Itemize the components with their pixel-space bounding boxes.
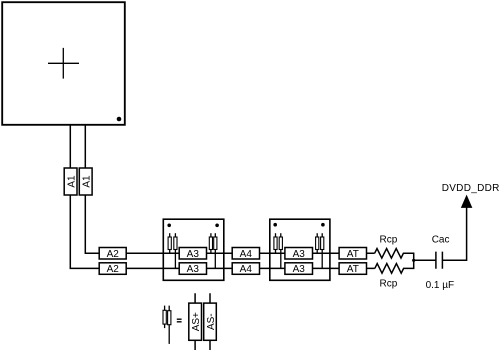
component A3 (block2 row2) (285, 263, 313, 275)
block 1 pin marker dot (right) (215, 224, 219, 228)
svg-text:A1: A1 (82, 175, 93, 188)
block 2 left termination pair (AS+/AS- elements) (274, 233, 283, 268)
svg-text:0.1 µF: 0.1 µF (426, 280, 455, 291)
package pin-1 dot (117, 117, 122, 122)
connector block 2 outline (270, 219, 330, 280)
junction node dot (412, 259, 415, 262)
component A4 (row2) (232, 263, 259, 275)
svg-text:A3: A3 (293, 264, 306, 275)
svg-text:DVDD_DDR: DVDD_DDR (442, 183, 500, 194)
legend symbol: termination pair element AS+ (163, 306, 166, 329)
svg-text:AT: AT (347, 249, 359, 260)
component A4 (row1) (232, 248, 259, 260)
svg-text:A3: A3 (293, 249, 306, 260)
wire: node to capacitor Cac (414, 259, 436, 261)
svg-text:A2: A2 (107, 264, 120, 275)
power arrow DVDD_DDR (462, 196, 472, 208)
component A2 (row2) (99, 263, 126, 275)
wire: net P (row1) from SoC pin P down and right through chain to Rcp (85, 125, 374, 253)
svg-text:A1: A1 (67, 175, 78, 188)
svg-text:A4: A4 (240, 249, 253, 260)
capacitor Cac plates (436, 252, 443, 269)
component A1 (left, on net N) (64, 168, 77, 195)
block 2 right termination pair (AS+/AS- elements) (316, 233, 324, 268)
svg-text:A3: A3 (187, 249, 200, 260)
block 1 pin marker dot (left) (167, 224, 171, 228)
svg-text:A4: A4 (240, 264, 253, 275)
svg-text:AT: AT (347, 264, 359, 275)
SoC package box (2, 2, 125, 125)
svg-text:Cac: Cac (432, 234, 450, 245)
component AT (row2) (339, 263, 366, 275)
connector block 1 outline (163, 219, 224, 280)
block 2 pin marker dot (right) (321, 223, 325, 227)
component A3 (block2 row1) (285, 248, 313, 260)
svg-text:A2: A2 (107, 249, 120, 260)
package center cross marker (48, 48, 79, 79)
component A3 (block1 row2) (179, 263, 206, 275)
resistor Rcp (top) zigzag (375, 249, 414, 261)
component A2 (row1) (99, 248, 126, 260)
block 2 pin marker dot (left) (273, 223, 277, 227)
resistor Rcp (bottom) zigzag (375, 260, 414, 273)
wire: net N (row2) from SoC pin N down and right through chain to Rcp (70, 125, 375, 268)
legend equals sign (177, 319, 182, 322)
svg-text:A3: A3 (187, 264, 200, 275)
svg-text:Rcp: Rcp (380, 278, 398, 289)
legend component AS+ (189, 293, 202, 350)
legend component AS- (204, 293, 217, 350)
block 1 right termination pair (AS+/AS- elements) (209, 233, 217, 268)
block 1 left termination pair (AS+/AS- elements) (168, 233, 177, 268)
component AT (row1) (339, 248, 366, 260)
svg-text:Rcp: Rcp (380, 235, 398, 246)
wire: capacitor to DVDD_DDR power (442, 207, 466, 260)
component A3 (block1 row1) (179, 248, 206, 260)
component A1 (right, on net P) (79, 168, 92, 195)
legend symbol: termination pair element AS- (168, 306, 171, 344)
svg-text:AS-: AS- (206, 313, 217, 330)
svg-text:AS+: AS+ (191, 312, 202, 331)
